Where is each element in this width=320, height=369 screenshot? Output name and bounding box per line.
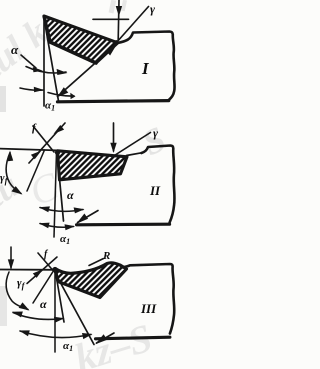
shank outline I (118, 32, 175, 101)
flank line I (46, 27, 59, 101)
chamfer dimension line III (27, 257, 57, 284)
alpha leader I (21, 55, 36, 68)
shank outline II (142, 146, 175, 223)
heel arrow III (95, 334, 107, 344)
gamma-f arc arrow top II (7, 151, 13, 162)
vertical trace line I (43, 18, 45, 106)
gamma diagonal II (112, 133, 151, 158)
alpha1 arc arrowhead left III (19, 330, 30, 336)
heel arrow line II (78, 211, 99, 223)
svg-text:R: R (102, 250, 110, 262)
gamma diagonal I (117, 7, 149, 43)
alpha1 arc arrowhead right II (65, 224, 76, 230)
gamma-f direction line II (27, 150, 45, 191)
gamma-f arc arrow bottom II (11, 186, 22, 194)
head lower edge band I (50, 42, 96, 63)
shank bottom edge III (96, 337, 170, 339)
R leader III (89, 259, 104, 266)
alpha arc arrowhead mid I (33, 67, 43, 72)
face line left II (0, 149, 57, 151)
watermark k bars top (109, 0, 117, 13)
gamma-f arc III (6, 272, 28, 310)
insert head hatched I (44, 16, 118, 63)
vertex blob II (55, 150, 60, 155)
vertical trace line II (54, 152, 57, 237)
alpha arc arrowhead right I (57, 69, 68, 75)
watermark tul k top (0, 11, 56, 87)
watermark bar left fig I (0, 86, 6, 112)
svg-text:α: α (67, 188, 74, 202)
svg-text:f: f (44, 249, 49, 260)
shank bottom edge I (58, 101, 169, 102)
left vertical arrowhead III (8, 259, 14, 269)
alpha arc arrowhead left II (39, 206, 50, 212)
insert head hatched III (55, 263, 127, 298)
gamma-f direction line III (33, 270, 54, 303)
vertical arrowhead II (110, 143, 116, 153)
svg-text:I: I (141, 59, 150, 78)
alpha1 arc arrowhead I (34, 87, 44, 93)
arrow at heel I (57, 87, 68, 97)
alpha1 arc II (40, 224, 74, 228)
svg-text:α1: α1 (45, 100, 55, 113)
watermark k bar 2 top (121, 0, 127, 11)
gamma-f arc II (6, 153, 21, 194)
watermark bar left fig III (0, 286, 7, 326)
alpha1 arc arrowhead right I (70, 93, 75, 99)
svg-text:α1: α1 (60, 233, 70, 246)
nose blob I (114, 40, 119, 45)
alpha arc arrowhead left III (12, 312, 23, 318)
vertical force arrow II (113, 123, 115, 151)
chamfer arrow III (33, 269, 43, 278)
alpha1 arc arrowhead right III (82, 333, 93, 339)
svg-text:γ: γ (150, 2, 155, 16)
alpha arc I (26, 67, 66, 73)
flank2 line to heel III (53, 269, 94, 345)
apex thick edge I (44, 17, 50, 42)
arrow at nose I (106, 44, 118, 56)
alpha1 arc arrowhead left II (39, 223, 50, 229)
heel arrow line III (97, 333, 115, 343)
alpha arc III (13, 313, 63, 320)
vertex blob III (52, 267, 57, 272)
heel arrow II (76, 214, 88, 224)
flank line II (57, 152, 64, 221)
svg-text:II: II (149, 183, 161, 198)
flank line III (55, 269, 64, 322)
shank outline III (122, 264, 175, 334)
alpha1 arc III (20, 331, 91, 338)
edge-to-heel line I (58, 45, 116, 97)
svg-text:α: α (11, 42, 19, 57)
alpha arc arrowhead right III (54, 317, 65, 323)
face line right II (127, 153, 142, 156)
svg-text:γ: γ (153, 126, 158, 140)
svg-text:f: f (32, 122, 37, 134)
face line III (0, 269, 55, 271)
alpha1 arc right I (48, 93, 74, 97)
chamfer dimension line II (29, 123, 65, 163)
svg-text:α: α (40, 297, 47, 311)
left vertical arrow III (10, 247, 12, 268)
svg-text:γf: γf (17, 277, 26, 291)
chamfer arrow lower II (31, 151, 42, 160)
shank bottom edge II (77, 223, 170, 227)
alpha arc II (40, 208, 83, 212)
alpha1 arc left I (20, 88, 44, 90)
insert head hatched II (58, 151, 128, 180)
vertical trace line III (54, 269, 56, 352)
gamma horizontal line I (93, 18, 129, 20)
svg-text:III: III (140, 301, 157, 316)
alpha arc arrowhead right II (74, 207, 85, 213)
vertical force arrow I (117, 0, 120, 40)
chamfer arrow upper II (54, 125, 65, 134)
gamma-f arc arrow III (19, 302, 30, 310)
chamfer edge line II (33, 126, 54, 152)
chamfer edge line III (38, 253, 53, 271)
vertical arrowhead I (116, 6, 122, 17)
